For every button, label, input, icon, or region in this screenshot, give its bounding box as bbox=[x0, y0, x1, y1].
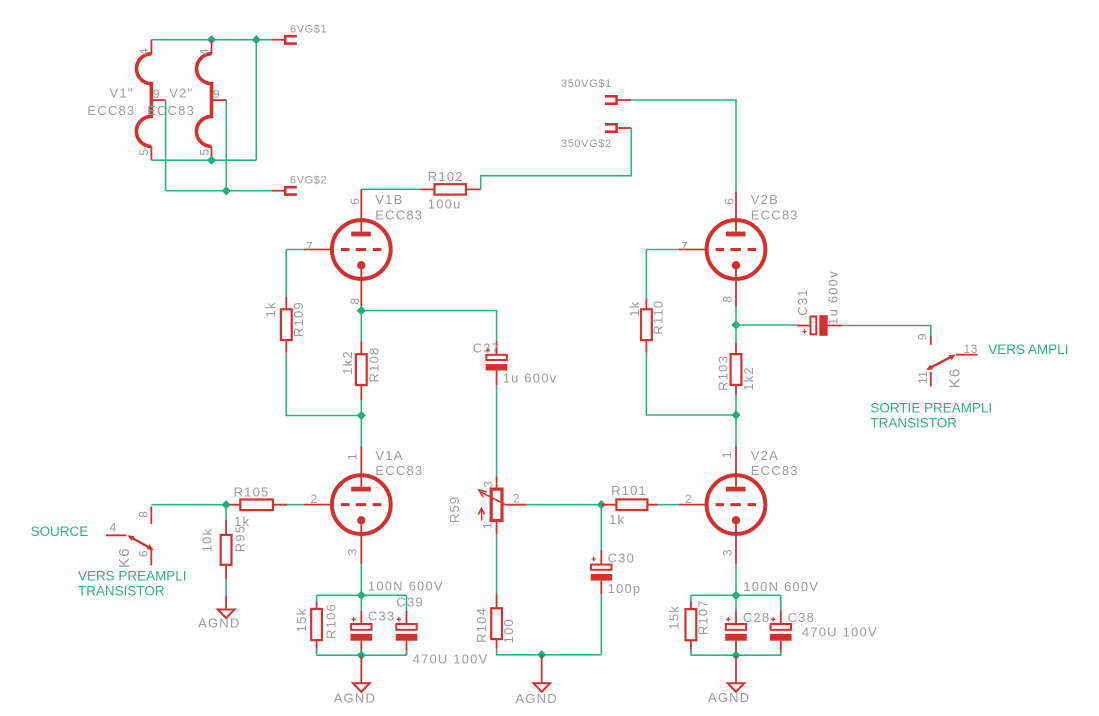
wire V1A cathode block top row bbox=[317, 594, 407, 596]
resistor R101 bbox=[601, 499, 657, 510]
svg-text:13: 13 bbox=[964, 342, 978, 356]
polarity plus of C31 bbox=[802, 329, 806, 333]
pin 8 lead V2B bbox=[735, 265, 737, 306]
svg-text:11: 11 bbox=[916, 371, 930, 384]
svg-text:8: 8 bbox=[721, 295, 735, 302]
triode V1B cathode dot bbox=[357, 261, 365, 269]
svg-text:AGND: AGND bbox=[198, 615, 240, 630]
wire R109 to V1A grid node bbox=[286, 353, 361, 416]
triode V1B circle bbox=[332, 220, 391, 279]
svg-text:350VG$1: 350VG$1 bbox=[561, 78, 612, 90]
polarity plus of C30 bbox=[592, 557, 596, 561]
junction V1B cathode node bbox=[357, 306, 366, 315]
triode V2A anode plate bbox=[726, 487, 746, 492]
ground AGND R95 bbox=[218, 610, 235, 619]
wire net 6VG$1 top bbox=[151, 40, 285, 161]
svg-text:C30: C30 bbox=[608, 551, 635, 566]
triode V2B anode plate bbox=[726, 232, 746, 237]
svg-text:1k: 1k bbox=[263, 301, 278, 317]
ground AGND mid lead bbox=[541, 655, 543, 683]
wire grid node to V1A pin 1 bbox=[360, 416, 362, 447]
svg-text:6VG$2: 6VG$2 bbox=[290, 175, 327, 187]
pin 7 lead V2B bbox=[679, 249, 707, 251]
ground AGND V2A lead bbox=[735, 655, 737, 683]
polarity plus of C37 bbox=[486, 348, 490, 352]
junction heater pin5 row bbox=[207, 156, 216, 165]
triode V1A grid dashes bbox=[341, 503, 382, 506]
svg-text:470U 100V: 470U 100V bbox=[413, 652, 489, 667]
junction V2B cathode node bbox=[731, 320, 740, 329]
wire R59 pin1 to R104 bbox=[496, 534, 498, 594]
svg-text:SOURCE: SOURCE bbox=[31, 524, 89, 539]
svg-text:R59: R59 bbox=[447, 496, 462, 523]
ground AGND V1A lead bbox=[360, 655, 362, 683]
connector K6 pin 9 stub bbox=[930, 336, 932, 345]
pin 6 lead V1B bbox=[360, 189, 362, 231]
capacitor C33 bbox=[351, 595, 373, 655]
polarity plus of C28 bbox=[726, 617, 730, 621]
polarity plus of C38 bbox=[771, 617, 775, 621]
resistor R109 bbox=[281, 297, 292, 353]
triode V1A cathode dot bbox=[357, 516, 365, 524]
svg-text:C39: C39 bbox=[396, 595, 423, 610]
svg-text:6VG$1: 6VG$1 bbox=[290, 24, 327, 36]
connector K6 pin 11 stub bbox=[930, 372, 932, 387]
resistor R95 bbox=[221, 520, 232, 579]
svg-text:3: 3 bbox=[346, 548, 360, 555]
wire R108 to grid junction bbox=[360, 400, 362, 415]
svg-text:1k: 1k bbox=[627, 301, 642, 317]
capacitor C39 bbox=[396, 595, 418, 655]
junction V1A block ground bbox=[357, 651, 366, 660]
wire net 350VG$1 to V2B anode bbox=[631, 100, 736, 191]
svg-text:100N 600V: 100N 600V bbox=[368, 579, 444, 594]
svg-text:1u 600v: 1u 600v bbox=[826, 270, 841, 325]
svg-text:ECC83: ECC83 bbox=[751, 208, 799, 223]
svg-text:VERS PREAMPLI: VERS PREAMPLI bbox=[78, 568, 187, 583]
svg-text:TRANSISTOR: TRANSISTOR bbox=[870, 415, 957, 430]
svg-text:R103: R103 bbox=[716, 355, 731, 391]
svg-text:AGND: AGND bbox=[708, 690, 750, 705]
connector K6 pin 4 lead bbox=[106, 534, 127, 536]
junction V1A grid node bbox=[357, 411, 366, 420]
lead 350VG$2 bbox=[618, 127, 631, 129]
polarity plus of C33 bbox=[352, 617, 356, 621]
pin 3 lead V1A bbox=[360, 520, 362, 564]
svg-text:1u 600v: 1u 600v bbox=[503, 370, 558, 385]
svg-text:100p: 100p bbox=[608, 581, 642, 596]
svg-text:K6: K6 bbox=[947, 368, 964, 389]
wire cathode node to C37 bbox=[361, 311, 496, 341]
svg-text:R105: R105 bbox=[234, 484, 270, 499]
pin 8 lead V1B bbox=[360, 265, 362, 306]
wire R104 to mid ground row bbox=[497, 649, 602, 655]
svg-text:C31: C31 bbox=[795, 288, 810, 315]
switch arm K6 right bbox=[926, 354, 956, 370]
wire V1B grid to R109 bbox=[286, 250, 304, 297]
svg-text:SORTIE PREAMPLI: SORTIE PREAMPLI bbox=[870, 401, 992, 416]
wire V2B cathode to junction bbox=[735, 307, 737, 326]
svg-text:AGND: AGND bbox=[334, 691, 376, 706]
svg-text:3: 3 bbox=[482, 480, 496, 487]
resistor R105 bbox=[230, 500, 287, 511]
triode V1A anode plate bbox=[351, 487, 371, 492]
svg-text:V1B: V1B bbox=[375, 192, 403, 207]
junction R95 tap bbox=[222, 500, 231, 509]
triode V2B cathode dot bbox=[732, 261, 740, 269]
svg-text:R110: R110 bbox=[651, 300, 666, 335]
svg-text:R102: R102 bbox=[428, 169, 464, 184]
resistor R107 bbox=[686, 595, 697, 655]
svg-text:1: 1 bbox=[345, 453, 359, 460]
svg-text:V2B: V2B bbox=[751, 192, 779, 207]
svg-text:C28: C28 bbox=[743, 610, 770, 625]
supply connector 6VG$2 bbox=[285, 187, 297, 194]
svg-text:ECC83: ECC83 bbox=[375, 208, 423, 223]
resistor R106 bbox=[311, 595, 322, 655]
triode V2A cathode dot bbox=[732, 516, 740, 524]
svg-text:R107: R107 bbox=[696, 599, 711, 635]
junction mid ground row bbox=[537, 650, 546, 659]
ground AGND V1A bbox=[353, 683, 370, 692]
svg-text:7: 7 bbox=[306, 240, 313, 254]
svg-text:9: 9 bbox=[915, 333, 929, 340]
pin 2 lead R59 bbox=[506, 504, 527, 506]
wire V1B cathode to junction bbox=[360, 307, 362, 311]
heater V2" bbox=[197, 40, 227, 161]
svg-text:5: 5 bbox=[197, 148, 211, 155]
svg-text:4: 4 bbox=[110, 521, 117, 535]
wire V2A cathode block bottom row bbox=[691, 654, 781, 656]
pin 6 lead V2B bbox=[735, 191, 737, 231]
svg-text:100: 100 bbox=[501, 618, 516, 643]
svg-text:ECC83: ECC83 bbox=[751, 463, 799, 478]
pin 1 lead V2A bbox=[735, 447, 737, 487]
wire V1A cathode block bottom row bbox=[317, 654, 407, 656]
wire R103 to grid junction bbox=[735, 395, 737, 416]
svg-text:100u: 100u bbox=[428, 197, 462, 212]
wire C30 to mid ground row bbox=[600, 594, 602, 655]
supply connector 350VG$1 bbox=[605, 96, 617, 103]
svg-text:2: 2 bbox=[311, 492, 318, 506]
wire K6 pin8 to R105 to V1A grid bbox=[151, 504, 304, 506]
capacitor C28 bbox=[725, 595, 747, 655]
svg-text:9: 9 bbox=[153, 87, 160, 101]
triode V2A grid dashes bbox=[716, 503, 757, 506]
svg-text:6: 6 bbox=[723, 198, 737, 205]
svg-text:3: 3 bbox=[720, 549, 734, 556]
pin 2 lead V1A bbox=[304, 504, 332, 506]
svg-text:15k: 15k bbox=[667, 605, 682, 630]
junction 6VG$1 riser bbox=[252, 35, 261, 44]
svg-text:8: 8 bbox=[136, 511, 150, 518]
wire V2A cathode block top row bbox=[691, 594, 781, 596]
wire cathode node down to R108 bbox=[360, 311, 362, 342]
wire V1A cathode to 100N node bbox=[360, 564, 362, 595]
wire heater pin5 bottom row bbox=[151, 159, 256, 161]
svg-text:15k: 15k bbox=[294, 608, 309, 633]
svg-text:C38: C38 bbox=[788, 610, 815, 625]
connector K6 pin 8 stub bbox=[150, 507, 152, 525]
polarity plus of C39 bbox=[397, 617, 401, 621]
capacitor C37 bbox=[486, 341, 508, 385]
wire V2B grid to R110 bbox=[646, 250, 678, 299]
resistor R110 bbox=[641, 298, 652, 352]
svg-text:V2A: V2A bbox=[751, 448, 779, 463]
potentiometer R59 adjust arrow bbox=[478, 508, 484, 520]
connector K6 pin 13 lead bbox=[956, 354, 978, 356]
wire R110 to V2A grid node bbox=[646, 353, 736, 415]
junction 6VG$2 bbox=[222, 186, 231, 195]
svg-text:K6: K6 bbox=[116, 547, 133, 568]
svg-text:4: 4 bbox=[197, 48, 211, 55]
svg-text:10k: 10k bbox=[200, 528, 215, 553]
resistor R108 bbox=[356, 341, 367, 400]
wire cathode node to C31 bbox=[736, 324, 797, 326]
pin 2 lead V2A bbox=[679, 504, 707, 506]
svg-text:AGND: AGND bbox=[516, 691, 558, 706]
svg-text:R108: R108 bbox=[367, 347, 382, 383]
resistor R103 bbox=[731, 343, 742, 395]
wire R59 wiper to R101 node bbox=[527, 504, 602, 506]
wire R101 to V2A grid bbox=[658, 504, 680, 506]
junction V2A grid node bbox=[731, 410, 740, 419]
pin 3 lead V2A bbox=[735, 520, 737, 564]
svg-text:V2": V2" bbox=[169, 86, 193, 101]
svg-text:V1A: V1A bbox=[375, 448, 403, 463]
svg-text:2: 2 bbox=[513, 492, 520, 506]
svg-text:R106: R106 bbox=[324, 603, 339, 639]
ground AGND R95 lead bbox=[225, 595, 227, 609]
triode V2A circle bbox=[707, 475, 766, 534]
svg-text:8: 8 bbox=[348, 297, 362, 304]
svg-text:470U 100V: 470U 100V bbox=[802, 624, 878, 639]
triode V2B circle bbox=[707, 220, 766, 279]
wire anode V1B to R102 bbox=[361, 188, 420, 190]
svg-text:1k2: 1k2 bbox=[741, 366, 756, 391]
heater V1" bbox=[136, 40, 165, 161]
capacitor C31 bbox=[797, 315, 842, 336]
svg-text:TRANSISTOR: TRANSISTOR bbox=[78, 583, 165, 598]
potentiometer R59 body bbox=[491, 476, 502, 534]
wire tap to R95 bbox=[225, 505, 227, 521]
triode V1B grid dashes bbox=[341, 248, 382, 251]
wire R95 to ground bbox=[225, 579, 227, 595]
wire C31 to K6 pin 9 bbox=[842, 326, 931, 337]
junction V2A cathode 100N node bbox=[731, 591, 740, 600]
svg-text:100N 600V: 100N 600V bbox=[743, 579, 819, 594]
capacitor C38 bbox=[770, 595, 792, 655]
svg-text:1: 1 bbox=[481, 522, 495, 529]
wire cathode node down to R103 bbox=[735, 325, 737, 343]
potentiometer R59 wiper arrow bbox=[479, 490, 506, 505]
resistor R104 bbox=[491, 594, 502, 648]
wire R102 to 350VG$2 bbox=[481, 128, 632, 189]
wire grid node to V2A pin 1 bbox=[735, 415, 737, 447]
pin 1 lead V1A bbox=[360, 447, 362, 487]
svg-text:7: 7 bbox=[681, 240, 688, 254]
triode V1B anode plate bbox=[351, 232, 371, 237]
junction 6VG$1 at heater V2" pin 4 bbox=[207, 35, 216, 44]
supply connector 6VG$1 bbox=[285, 36, 297, 43]
svg-text:6: 6 bbox=[136, 550, 150, 557]
svg-text:VERS AMPLI: VERS AMPLI bbox=[988, 342, 1068, 357]
supply connector 350VG$2 bbox=[605, 124, 617, 131]
ground AGND mid bbox=[533, 683, 550, 692]
svg-text:R104: R104 bbox=[474, 607, 489, 643]
switch arm K6 left bbox=[127, 535, 153, 550]
svg-text:ECC83: ECC83 bbox=[87, 103, 135, 118]
svg-text:C37: C37 bbox=[473, 340, 500, 355]
wire node to C30 bbox=[600, 505, 602, 551]
junction R101 input node bbox=[597, 500, 606, 509]
connector K6 pin 6 stub bbox=[150, 548, 152, 566]
wire net 6VG$2 bbox=[166, 100, 285, 191]
svg-text:1: 1 bbox=[720, 451, 734, 458]
svg-text:R109: R109 bbox=[291, 301, 306, 337]
svg-text:C33: C33 bbox=[368, 609, 395, 624]
pin 7 lead V1B bbox=[304, 249, 332, 251]
wire V2A cathode to 100N node bbox=[735, 564, 737, 595]
resistor R102 bbox=[421, 184, 481, 194]
svg-text:350VG$2: 350VG$2 bbox=[561, 138, 612, 150]
svg-text:ECC83: ECC83 bbox=[147, 103, 195, 118]
svg-text:ECC83: ECC83 bbox=[375, 463, 423, 478]
svg-text:9: 9 bbox=[213, 87, 220, 101]
triode V1A circle bbox=[332, 475, 391, 534]
svg-text:R95: R95 bbox=[233, 525, 248, 552]
capacitor C30 bbox=[591, 550, 613, 594]
junction V2A block ground bbox=[731, 651, 740, 660]
svg-text:R101: R101 bbox=[611, 483, 647, 498]
svg-text:1k2: 1k2 bbox=[340, 350, 355, 375]
svg-text:6: 6 bbox=[348, 198, 362, 205]
svg-text:1k: 1k bbox=[609, 512, 625, 527]
wire C37 to R59 bbox=[496, 385, 498, 476]
svg-text:V1": V1" bbox=[110, 86, 134, 101]
svg-text:4: 4 bbox=[137, 48, 151, 55]
ground AGND V2A bbox=[728, 683, 745, 692]
lead 350VG$1 bbox=[617, 99, 632, 101]
triode V2B grid dashes bbox=[716, 248, 757, 251]
svg-text:5: 5 bbox=[137, 148, 151, 155]
junction V1A cathode 100N node bbox=[357, 591, 366, 600]
svg-text:2: 2 bbox=[685, 492, 692, 506]
